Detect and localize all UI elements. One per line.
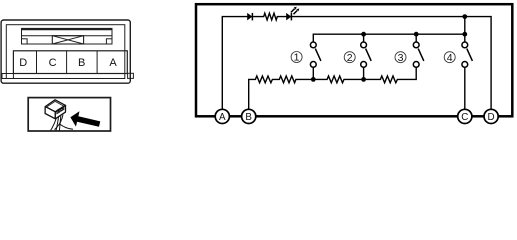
svg-text:3: 3 bbox=[398, 52, 404, 64]
svg-text:B: B bbox=[245, 112, 252, 123]
svg-text:A: A bbox=[219, 112, 226, 123]
svg-text:D: D bbox=[488, 112, 495, 123]
svg-text:C: C bbox=[49, 57, 57, 69]
svg-text:B: B bbox=[78, 57, 85, 69]
svg-text:D: D bbox=[19, 57, 27, 69]
svg-text:4: 4 bbox=[447, 52, 453, 64]
svg-text:2: 2 bbox=[347, 52, 353, 64]
svg-text:C: C bbox=[461, 112, 468, 123]
svg-text:A: A bbox=[109, 57, 117, 69]
svg-text:1: 1 bbox=[294, 52, 300, 64]
